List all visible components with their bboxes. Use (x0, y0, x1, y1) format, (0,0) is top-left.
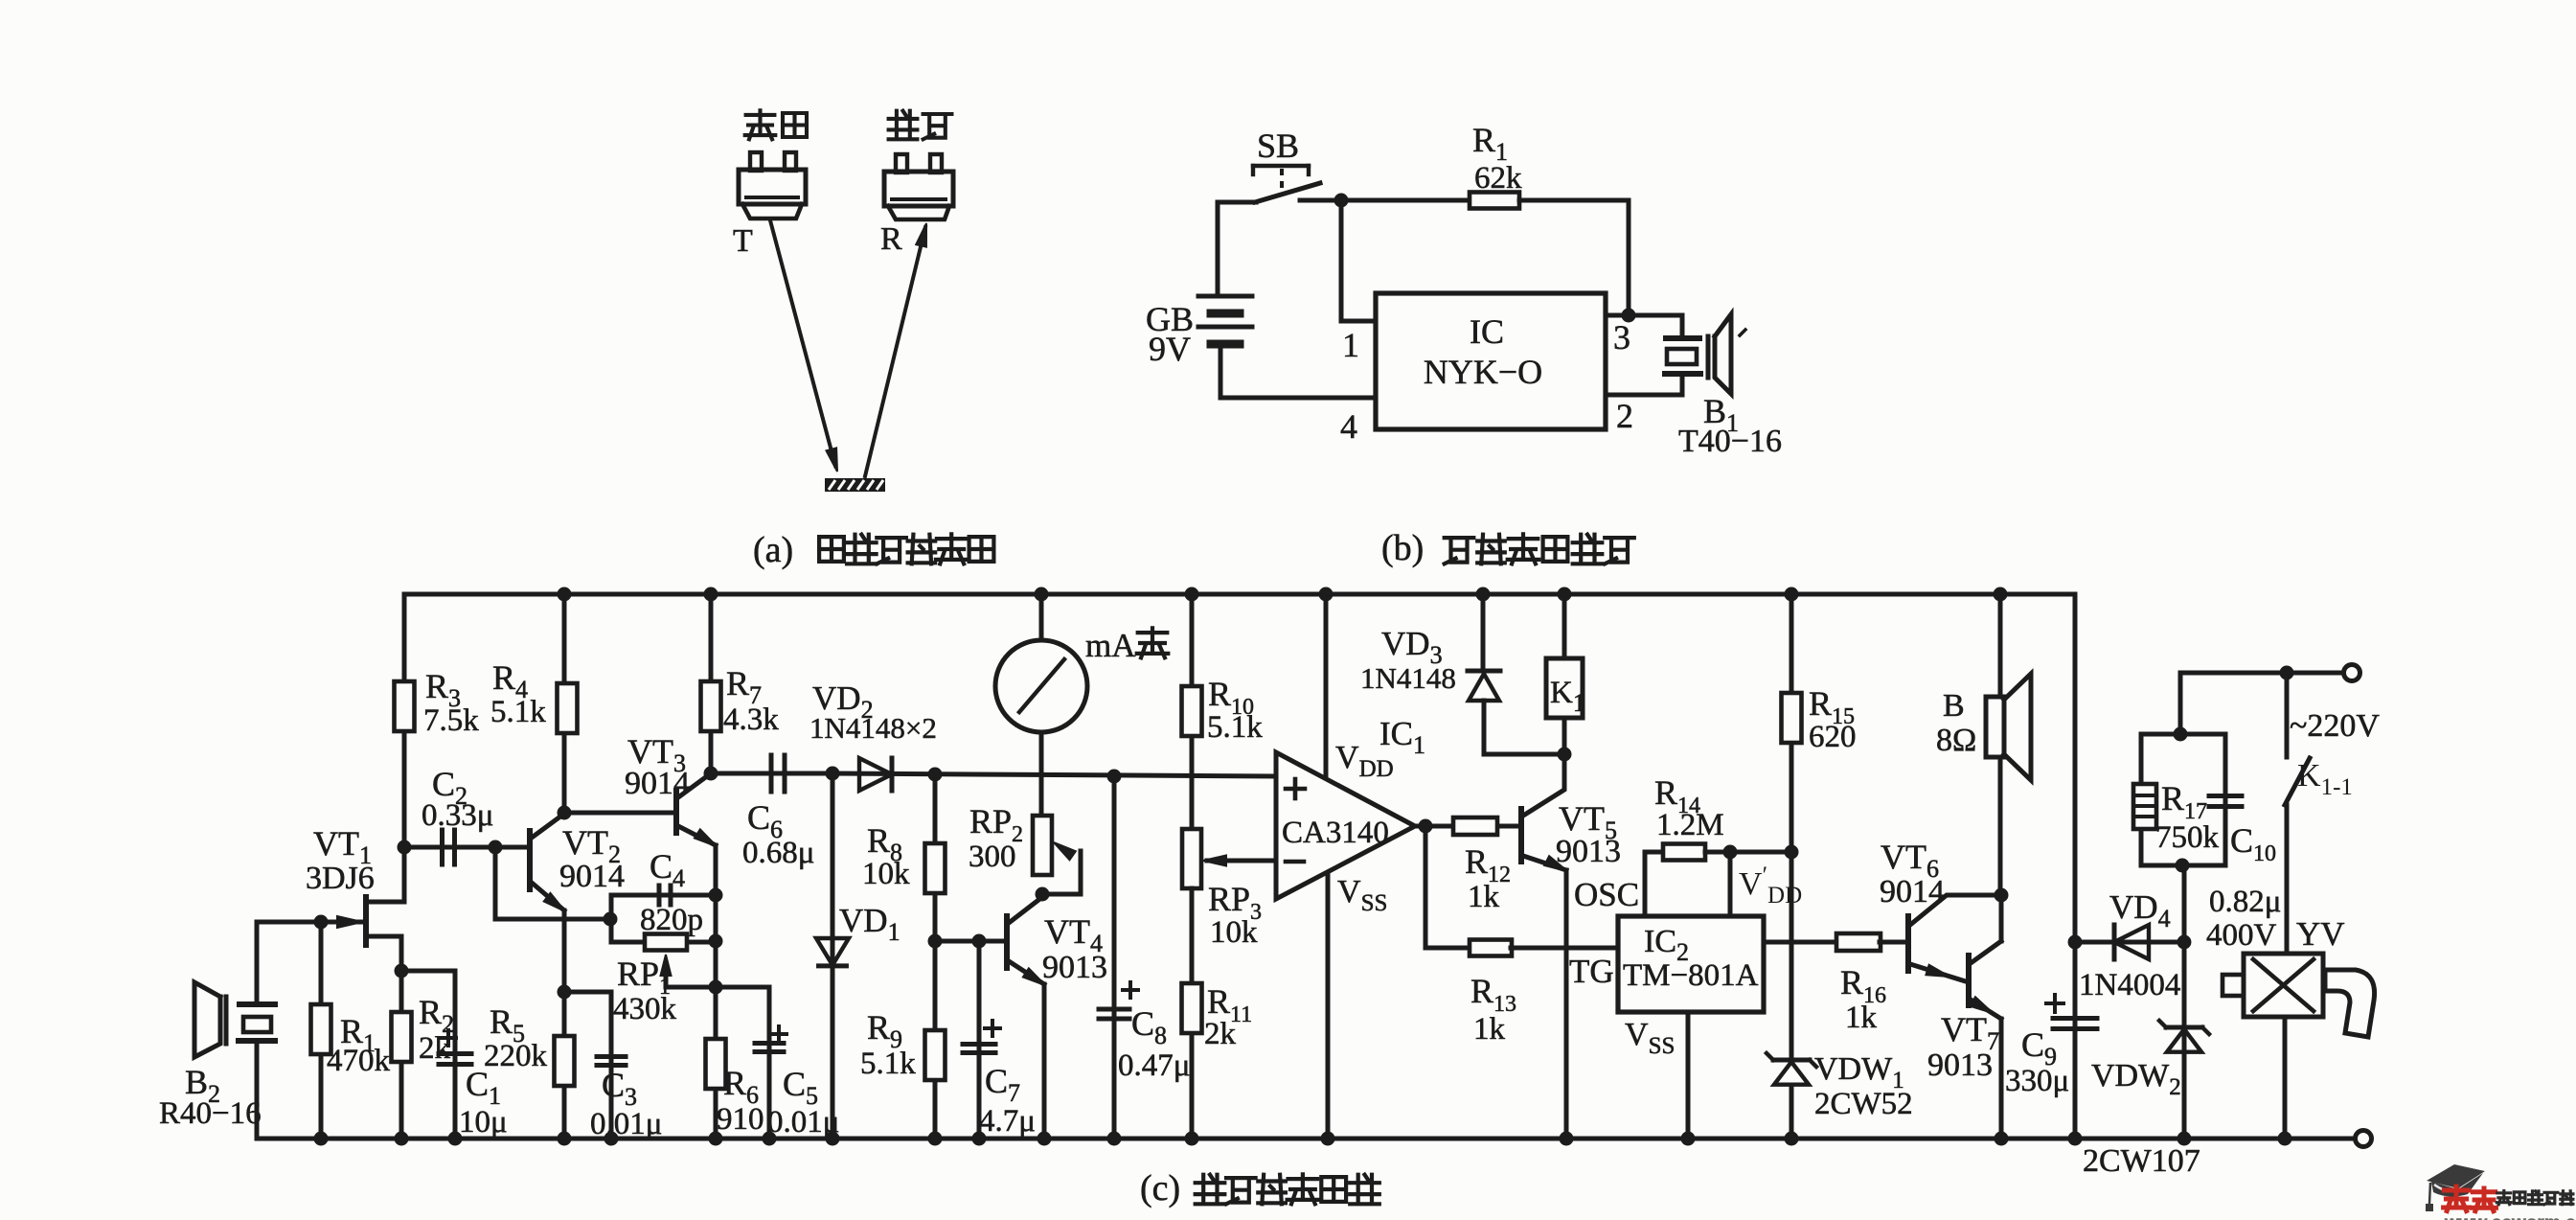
IC2 OSC pin stub (1645, 852, 1663, 916)
transistor VT6 9014 (1905, 916, 1911, 971)
svg-text:9014: 9014 (559, 859, 625, 894)
resistor R12 1k (1453, 817, 1497, 835)
node speaker/collectors (1995, 888, 2009, 903)
wire node down to pin 1 (1341, 200, 1376, 321)
resistor R13 1k (1470, 940, 1512, 956)
svg-text:910: 910 (717, 1102, 764, 1137)
pin 3 wire (1606, 315, 1682, 337)
svg-text:2: 2 (1616, 397, 1633, 435)
resistor R2 2k (399, 971, 404, 1139)
resistor R4 5.1k (558, 587, 572, 602)
wire B2 to gate (257, 922, 361, 1001)
wire output to R13 (1425, 826, 1470, 948)
node gate/R1 (314, 915, 329, 930)
transducer R body (884, 172, 953, 206)
svg-text:T: T (733, 223, 753, 259)
node collector VT3 (704, 767, 718, 781)
svg-text:9013: 9013 (1042, 950, 1107, 985)
label 发送 (transmit) (745, 110, 776, 139)
wire SB to R1 node (1300, 198, 1470, 203)
resistor R8 10k (933, 774, 938, 941)
capacitor C10 (2209, 794, 2242, 798)
IC2 output to R16 (1764, 940, 1836, 945)
IC NYK-O box (1376, 293, 1606, 429)
transducer R prongs (896, 154, 907, 173)
svg-text:4.3k: 4.3k (723, 702, 779, 737)
svg-text:0.01μ: 0.01μ (590, 1107, 662, 1141)
svg-text:750k: 750k (2155, 820, 2220, 855)
resistor R1 (62k) (1470, 193, 1519, 209)
zener VDW1 2CW52 (1773, 1058, 1810, 1063)
resistor R14 1.2M (1663, 844, 1705, 861)
svg-text:R: R (880, 221, 902, 257)
svg-text:300: 300 (969, 840, 1016, 874)
svg-text:5.1k: 5.1k (1207, 710, 1263, 745)
transistor VT2 9014 (527, 831, 533, 889)
node VD1 (826, 767, 840, 781)
svg-text:YV: YV (2296, 915, 2345, 953)
resistor R9 5.1k (933, 941, 938, 1139)
svg-text:430k: 430k (613, 992, 677, 1026)
capacitor C5 0.01u (716, 987, 769, 1139)
svg-text:1k: 1k (1468, 880, 1500, 914)
IC2 VDD' stub (1728, 852, 1733, 916)
capacitor C7 4.7u (977, 941, 982, 1139)
svg-text:T40−16: T40−16 (1678, 424, 1782, 459)
wire to VT4 base (935, 939, 1007, 944)
R17 C10 parallel block (2182, 865, 2187, 942)
label 接收 (receive) (889, 111, 918, 140)
transducer B1 horn (1706, 336, 1711, 378)
node VD4/R17C10/VDW2 (2177, 935, 2192, 950)
svg-text:SB: SB (1257, 127, 1299, 165)
watermark 电子下载站 (2496, 1191, 2511, 1205)
resistor R15 620 (1785, 587, 1799, 602)
beam reflector to R (865, 227, 925, 476)
node C2/base/feedback (489, 840, 503, 855)
svg-text:1N4148×2: 1N4148×2 (809, 711, 937, 745)
resistor R7 4.3k (704, 587, 718, 602)
transistor VT3 9014 (673, 791, 679, 833)
potentiometer RP1 430k (709, 934, 723, 949)
svg-text:8Ω: 8Ω (1936, 723, 1976, 758)
svg-text:R40−16: R40−16 (159, 1096, 262, 1131)
svg-text:4: 4 (1340, 407, 1357, 446)
battery GB 9V (1198, 294, 1252, 299)
svg-text:CA3140: CA3140 (1282, 816, 1389, 850)
svg-text:1k: 1k (1473, 1012, 1506, 1047)
svg-text:TM−801A: TM−801A (1623, 958, 1759, 993)
transistor VT5 9013 (1523, 754, 1564, 816)
watermark 虫虫 red glyphs (2444, 1186, 2470, 1211)
potentiometer RP2 300 (1033, 816, 1052, 875)
node pin3/R1 (1622, 309, 1636, 323)
bottom ground bus (257, 1137, 2356, 1141)
wire base node down to feedback (495, 847, 610, 919)
svg-text:0.33μ: 0.33μ (422, 798, 493, 833)
meter to RP2 (1039, 732, 1044, 816)
svg-text:1N4148: 1N4148 (1360, 661, 1456, 695)
capacitor C8 0.47u (1112, 776, 1117, 1139)
solenoid valve YV (2244, 954, 2323, 1017)
svg-text:(b): (b) (1381, 528, 1424, 568)
svg-text:2k: 2k (1204, 1017, 1237, 1051)
svg-text:1.2M: 1.2M (1656, 808, 1724, 842)
resistor R1 470k branch (319, 922, 324, 1139)
resistor R10 5.1k (1185, 587, 1199, 602)
svg-text:1N4004: 1N4004 (2079, 968, 2180, 1002)
wire battery- to pin 4 (1220, 348, 1376, 398)
emitter VT2 down (562, 910, 567, 992)
svg-text:7.5k: 7.5k (423, 703, 479, 738)
diode VD2 1N4148x2 (832, 773, 1276, 776)
svg-text:5.1k: 5.1k (860, 1047, 916, 1081)
node K1/VD3/collector VT5 (1558, 748, 1572, 762)
transducer T prongs (750, 152, 762, 171)
FET VT1 3DJ6 (363, 897, 369, 945)
op-amp IC1 CA3140 (1319, 587, 1334, 602)
node RP2/VT4 collector (1036, 887, 1050, 902)
svg-text:10k: 10k (1210, 915, 1258, 950)
svg-text:62k: 62k (1474, 161, 1522, 196)
capacitor C2 0.33u (404, 845, 530, 850)
resistor R6 910 (706, 1039, 726, 1089)
svg-text:9014: 9014 (625, 766, 690, 801)
speaker B 8ohm (1994, 587, 2008, 602)
diode VD4 1N4004 (2075, 940, 2184, 945)
svg-text:mA: mA (1085, 627, 1136, 664)
watermark graduation cap logo (2427, 1164, 2485, 1188)
zener VDW2 2CW107 (2182, 942, 2187, 1139)
diode VD3 1N4148 (1476, 587, 1491, 602)
node feedback join (604, 912, 618, 927)
node R8/R9/base VT4 (928, 934, 943, 949)
svg-text:9V: 9V (1149, 330, 1191, 368)
svg-text:620: 620 (1809, 720, 1857, 754)
svg-text:220k: 220k (484, 1039, 548, 1073)
capacitor C4 820p (709, 888, 723, 903)
svg-text:NYK−O: NYK−O (1424, 353, 1542, 391)
transducer T body (739, 170, 806, 204)
diode VD1 (831, 773, 835, 1139)
svg-text:0.68μ: 0.68μ (742, 836, 814, 870)
svg-text:~220V: ~220V (2290, 708, 2380, 744)
capacitor C1 10u (401, 971, 455, 1139)
svg-text:0.47μ: 0.47μ (1118, 1048, 1190, 1083)
svg-text:0.82μ: 0.82μ (2209, 885, 2281, 919)
svg-text:2CW107: 2CW107 (2083, 1143, 2200, 1179)
meter mA (1035, 587, 1049, 602)
transistor VT7 9013 (1966, 955, 1972, 1005)
svg-text:1k: 1k (1845, 1001, 1878, 1035)
mic B2 horn (224, 997, 229, 1044)
svg-text:10μ: 10μ (459, 1105, 508, 1139)
svg-text:OSC: OSC (1574, 876, 1639, 913)
node C7 (972, 934, 987, 949)
switch SB (1253, 164, 1309, 168)
svg-text:330μ: 330μ (2005, 1064, 2069, 1098)
resistor R5 220k (562, 992, 567, 1139)
svg-text:(c): (c) (1140, 1168, 1180, 1208)
emitter VT3 vertical (714, 845, 718, 1139)
node pin1/SB (1334, 194, 1349, 208)
reflector (hatched) (825, 478, 885, 492)
svg-text:9014: 9014 (1880, 874, 1945, 909)
op-amp output node (1415, 824, 1521, 829)
wire to ~220V terminal (2180, 671, 2344, 676)
node drain/R3/C2 (398, 840, 412, 855)
svg-text:10k: 10k (862, 857, 910, 891)
node R8 (928, 768, 943, 782)
svg-text:9013: 9013 (1927, 1047, 1993, 1083)
resistor R3 7.5k (402, 594, 407, 847)
svg-text:B: B (1943, 688, 1965, 724)
switch K1-1 (2285, 673, 2290, 757)
resistor R11 2k (1190, 888, 1195, 1139)
svg-text:5.1k: 5.1k (490, 695, 546, 729)
wire B2 to ground (255, 1045, 260, 1139)
node source (395, 964, 409, 978)
svg-text:1: 1 (1342, 326, 1359, 364)
resistor R16 1k (1836, 933, 1881, 951)
wire R1 to pin 3 corner (1519, 200, 1629, 315)
svg-text:400V: 400V (2206, 918, 2277, 953)
node collector VT2 (558, 806, 572, 820)
wire bus right down to C9 node (2068, 935, 2083, 950)
wire collector to VT3 base (564, 811, 676, 816)
svg-text:9013: 9013 (1556, 834, 1621, 869)
node C8 (1107, 770, 1122, 784)
ground terminal right (2356, 1131, 2372, 1147)
svg-text:3DJ6: 3DJ6 (306, 861, 375, 896)
svg-text:TG: TG (1569, 953, 1614, 990)
resistor R17 750k (banded) (2133, 784, 2156, 829)
wire YV to ground bus (2283, 1017, 2288, 1139)
IC2 VSS stub (1686, 1012, 1691, 1139)
pin 2 wire (1606, 376, 1682, 395)
potentiometer RP3 10k (1182, 829, 1201, 888)
transducer B1 crystal (1666, 335, 1699, 341)
svg-text:470k: 470k (327, 1044, 391, 1078)
mic B2 crystal (239, 1001, 275, 1007)
wire battery+ to SB (1218, 200, 1256, 205)
capacitor C3 0.01u (564, 992, 611, 1139)
svg-text:2CW52: 2CW52 (1814, 1087, 1913, 1121)
node emitter VT2 (558, 985, 572, 1000)
svg-text:www.eeworm.com: www.eeworm.com (2444, 1213, 2576, 1220)
svg-text:3: 3 (1613, 318, 1630, 357)
op-amp VSS to ground (1326, 875, 1331, 1139)
svg-text:(a): (a) (753, 530, 793, 570)
beam T to reflector (770, 220, 835, 466)
top supply bus (404, 594, 2075, 942)
capacitor C6 0.68u (711, 771, 832, 776)
capacitor C9 330u (2073, 942, 2078, 1139)
IC2 TM-801A box (1618, 916, 1764, 1012)
transistor VT4 9013 (1004, 916, 1010, 968)
svg-text:4.7μ: 4.7μ (979, 1104, 1036, 1139)
svg-text:IC: IC (1470, 312, 1504, 351)
relay K1 (1558, 587, 1572, 602)
ground bus junction dots (314, 1132, 329, 1146)
